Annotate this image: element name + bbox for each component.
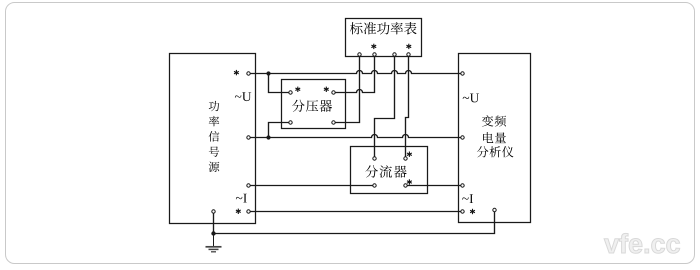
polarity mark * at divider top-left (295, 87, 300, 92)
terminal: divider top-right* (332, 91, 335, 94)
box U3: voltage divider 分压器 (282, 80, 346, 129)
terminal: analyzer U-low (RT2) (461, 136, 464, 139)
terminal: analyzer *I (RT4) (461, 210, 464, 213)
wire: meter terminal T3 to shunt top-left, hop through U-low line (375, 55, 395, 159)
polarity mark * at source LT1 (234, 70, 239, 75)
wire: node A drop to divider top-left (269, 74, 291, 93)
label 标准功率表 (350, 22, 417, 35)
terminal: source *I (LT4) (247, 210, 250, 213)
polarity mark * at shunt bottom-right (407, 179, 412, 184)
wire: ground bus to analyzer bottom terminal (214, 210, 495, 234)
label ~U at analyzer (463, 94, 479, 103)
node B junction dot (266, 135, 270, 139)
label 分流器 (365, 165, 406, 177)
label 分压器 (292, 100, 332, 112)
watermark vfe.cc (604, 233, 680, 253)
label 变频电量分析仪 (477, 115, 514, 157)
terminal: source I (LT3) (247, 184, 250, 187)
box U5: frequency-conversion power analyzer 变频电量分析仪 (459, 54, 531, 223)
ground junction dot (211, 231, 215, 235)
box U1: power signal source 功率信号源 (170, 54, 256, 224)
wire: U-low line, source LT2 to analyzer RT2, hops over shunt leads (249, 135, 463, 138)
terminal: meter T4* (407, 53, 410, 56)
label 功率信号源 (209, 101, 220, 172)
wire: ~I* line, source LT4 to analyzer RT4 (249, 211, 463, 213)
polarity mark * at meter T2 (371, 44, 376, 49)
wire: divider bottom-right to meter terminal T1 (334, 55, 360, 123)
label ~I at source (236, 194, 247, 203)
node A junction dot (266, 71, 270, 75)
terminal: analyzer *U (RT1) (461, 72, 464, 75)
wire: ~U* line, source LT1 to analyzer RT1, hops over meter leads (249, 71, 463, 74)
wire: node B rise to divider bottom-left (269, 123, 291, 138)
polarity mark * at analyzer RT4 (470, 209, 475, 214)
terminal: shunt bottom-left (373, 184, 376, 187)
box U4: current shunt 分流器 (351, 147, 428, 194)
ground symbol (206, 234, 222, 252)
terminal: analyzer bottom/ground (493, 208, 496, 211)
label ~I at analyzer (462, 194, 473, 203)
terminal: meter T3 (393, 53, 396, 56)
label ~U at source (235, 92, 251, 101)
terminal: analyzer I (RT3) (461, 184, 464, 187)
polarity mark * at meter T4 (406, 44, 411, 49)
polarity mark * at source LT4 (236, 209, 241, 214)
polarity mark * at shunt top-right (407, 152, 412, 157)
terminal: shunt top-right* (404, 157, 407, 160)
wire: meter terminal T4 to shunt top-right, hop through U-low line (406, 55, 409, 159)
terminal: divider bottom-left (289, 121, 292, 124)
terminal: source *U (LT1) (247, 72, 250, 75)
terminal: shunt top-left (373, 157, 376, 160)
terminal: source bottom/ground (212, 210, 215, 213)
wire: source bottom terminal to ground junction (213, 212, 215, 234)
terminal: divider bottom-right (332, 121, 335, 124)
terminal: meter T1 (358, 53, 361, 56)
terminal: divider top-left* (289, 91, 292, 94)
wire: shunt bottom-right to analyzer RT3 (406, 185, 463, 187)
box U2: standard power meter 标准功率表 (346, 19, 422, 57)
terminal: source U-low (LT2) (247, 136, 250, 139)
terminal: shunt bottom-right* (404, 184, 407, 187)
wire: divider top-right to meter terminal T2, hop over lead A (334, 55, 375, 93)
terminal: meter T2* (373, 53, 376, 56)
wire: source LT3 to shunt bottom-left (249, 185, 375, 187)
polarity mark * at divider top-right (324, 87, 329, 92)
